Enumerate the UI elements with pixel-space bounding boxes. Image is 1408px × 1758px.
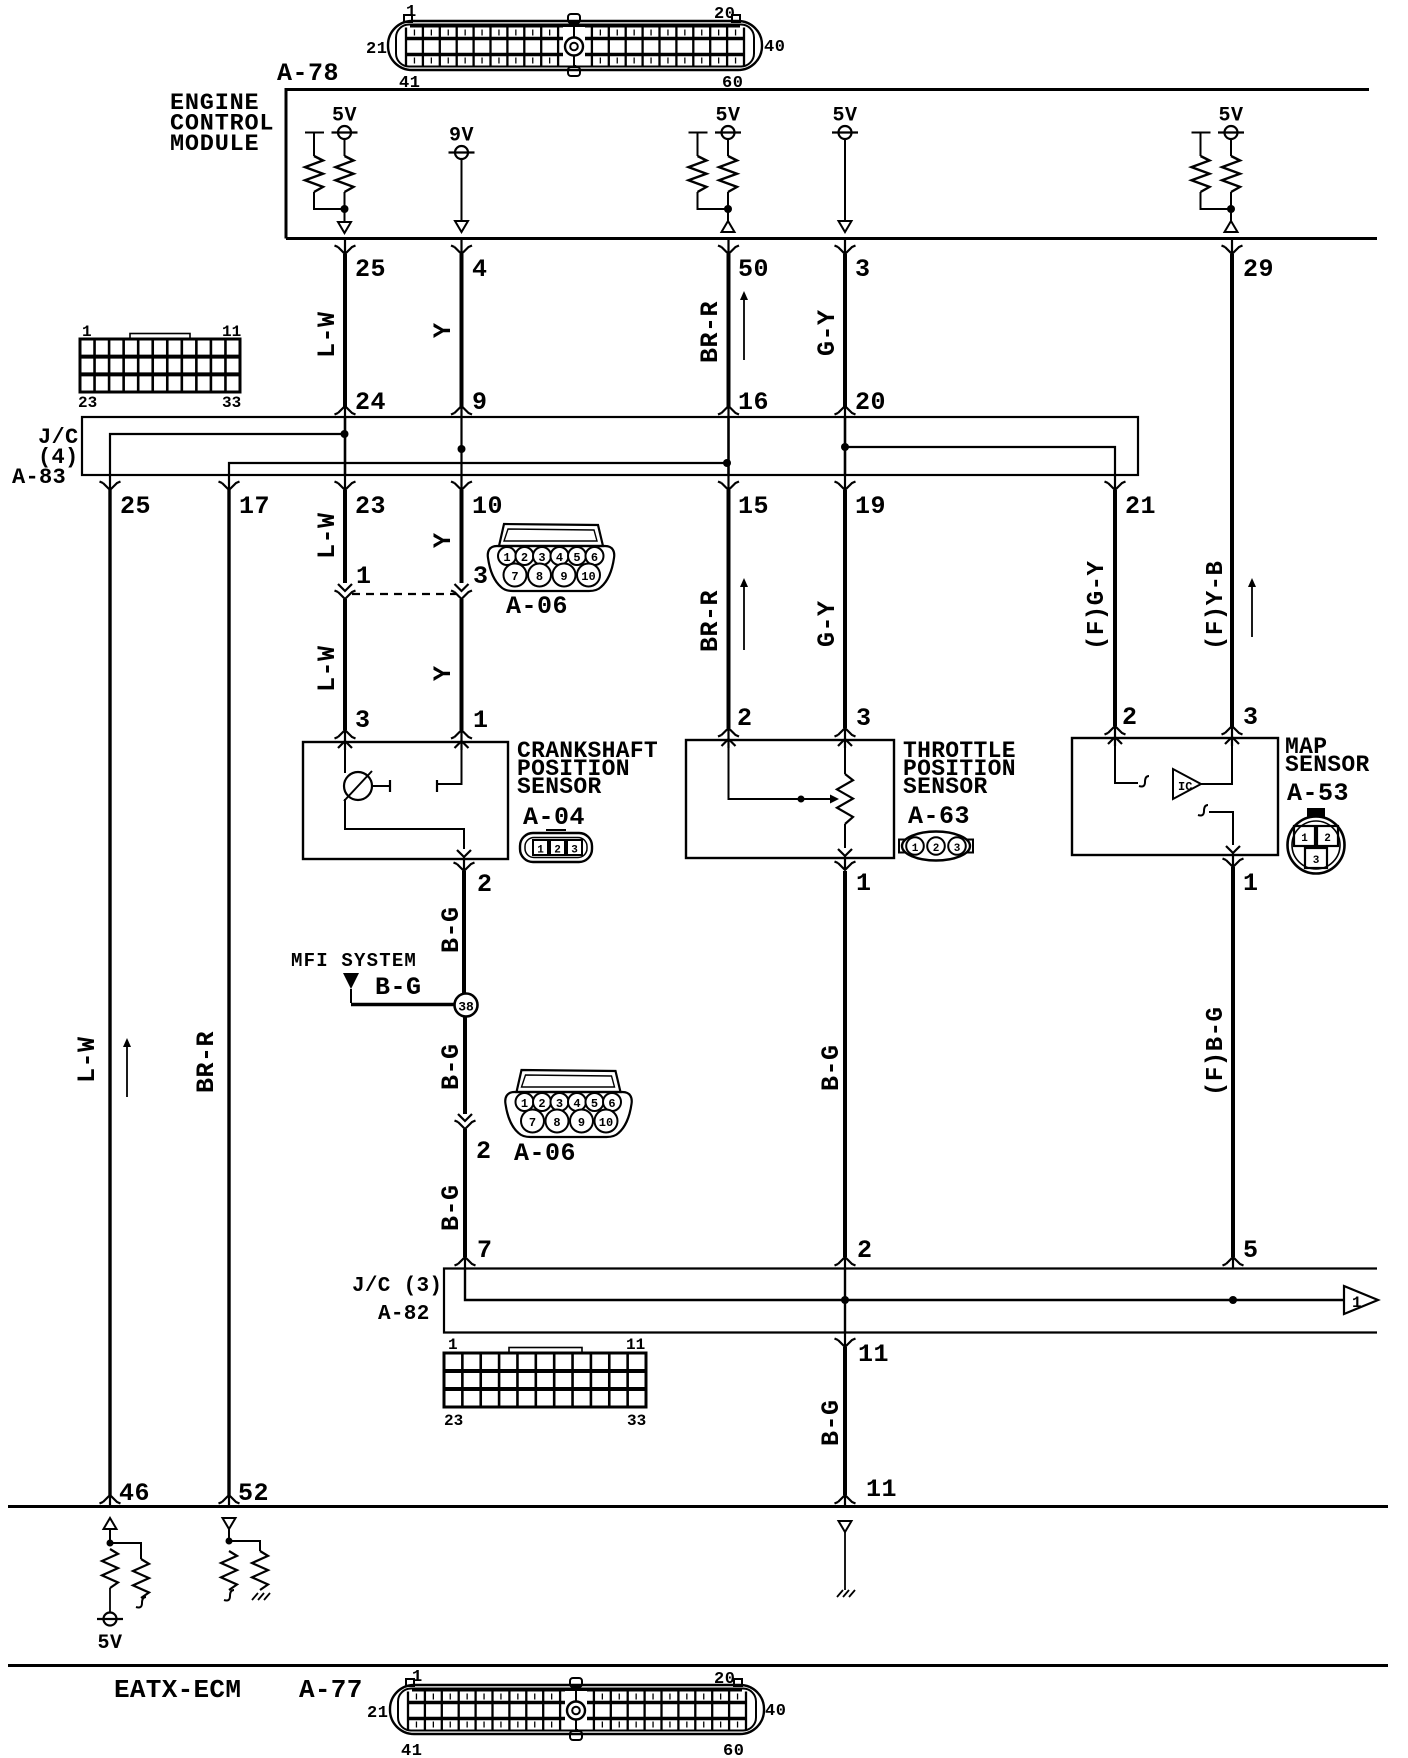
svg-text:A-06: A-06 — [514, 1139, 576, 1168]
svg-text:9: 9 — [472, 388, 488, 417]
svg-text:10: 10 — [599, 1116, 613, 1130]
wire pin2-11 through band — [844, 1268, 846, 1332]
svg-text:1: 1 — [473, 706, 489, 735]
wire L-W pin25 to EATX pin46 — [108, 490, 111, 1495]
svg-text:2: 2 — [1324, 833, 1331, 845]
svg-text:B-G: B-G — [437, 1043, 466, 1090]
svg-text:11: 11 — [866, 1475, 897, 1504]
arrow direction BR-R lower — [743, 582, 745, 650]
arrow in pin50 — [722, 221, 735, 232]
wire pin29 right — [1230, 139, 1232, 156]
svg-text:46: 46 — [119, 1479, 150, 1508]
node pin29 junction — [1227, 205, 1235, 213]
resistor ECM pin50 left — [689, 156, 707, 192]
wire 5V tap left pin50 — [689, 133, 708, 157]
svg-text:8: 8 — [536, 570, 543, 584]
svg-text:2: 2 — [538, 1097, 545, 1111]
connector break A-06 pin1 — [335, 584, 356, 599]
svg-text:40: 40 — [765, 1702, 786, 1721]
connector A-78 60-pin icon — [366, 3, 785, 93]
svg-text:11: 11 — [858, 1340, 889, 1369]
svg-text:B-G: B-G — [375, 973, 422, 1002]
terminal MAP pin3 — [1222, 726, 1243, 746]
svg-text:24: 24 — [355, 388, 386, 417]
pickup coil CKP — [344, 772, 372, 800]
wire TPS pin2 internal — [729, 748, 831, 799]
svg-text:60: 60 — [723, 1742, 744, 1758]
svg-text:1: 1 — [356, 562, 372, 591]
arrow in pin46 — [104, 1518, 117, 1529]
svg-text:5: 5 — [573, 551, 580, 565]
wire pin9-10 through band — [460, 417, 462, 475]
svg-text:MFI SYSTEM: MFI SYSTEM — [291, 950, 417, 972]
terminal CKP pin3 — [335, 730, 356, 750]
wire BR-R pin50 to pin16 — [727, 254, 731, 407]
wire CKP pin3 internal — [344, 750, 346, 773]
hook pin46 right — [136, 1597, 146, 1608]
svg-text:1: 1 — [1243, 869, 1259, 898]
terminal pin5 A-82 — [1223, 1257, 1244, 1268]
5V supply pin25 group — [332, 105, 358, 140]
svg-text:3: 3 — [1313, 855, 1320, 867]
wire pin46 tap right — [110, 1543, 141, 1559]
svg-text:2: 2 — [477, 870, 493, 899]
svg-text:1: 1 — [856, 869, 872, 898]
wire B-G TPS to JC3 pin2 — [843, 871, 847, 1257]
wire pin20-19 through band — [844, 417, 847, 475]
9V supply pin4 — [449, 125, 475, 160]
node pin46 — [107, 1540, 114, 1547]
svg-text:21: 21 — [1125, 492, 1156, 521]
svg-text:33: 33 — [222, 394, 241, 412]
terminal pin10 A-83 out — [451, 476, 472, 490]
label MAP SENSOR — [1285, 734, 1370, 778]
wire 9V to arrow — [461, 160, 463, 222]
sensor box CKP A-04 — [303, 742, 508, 859]
svg-text:L-W: L-W — [313, 311, 342, 358]
junction box J/C(4) A-83 — [82, 417, 1138, 475]
svg-text:3: 3 — [473, 562, 489, 591]
svg-text:1: 1 — [521, 1097, 528, 1111]
svg-text:3: 3 — [1243, 703, 1259, 732]
svg-text:23: 23 — [444, 1412, 463, 1430]
terminal pin50 A-78 — [718, 240, 739, 254]
svg-text:3: 3 — [954, 843, 961, 855]
wire B-G CKP to node38 — [462, 871, 466, 994]
wire 5V tap left pin25 — [305, 133, 324, 157]
wire Y pin10 to A-06 pin3 — [460, 490, 464, 583]
arrow in pin29 — [1225, 221, 1238, 232]
svg-text:2: 2 — [857, 1236, 873, 1265]
svg-text:38: 38 — [458, 1000, 474, 1015]
svg-text:B-G: B-G — [817, 1399, 846, 1446]
resistor ECM pin29 right — [1222, 156, 1240, 192]
gap electrode right CKP — [436, 780, 438, 792]
wire Y A-06 to CKP pin1 — [460, 599, 464, 730]
terminal CKP pin1 — [451, 730, 472, 750]
svg-text:(F)B-G: (F)B-G — [1203, 1007, 1230, 1096]
label CRANKSHAFT POSITION SENSOR — [517, 738, 658, 800]
resistor EATX pin46 left — [102, 1549, 118, 1588]
connector A-83 grid icon — [78, 323, 241, 412]
terminal pin29 A-78 — [1222, 240, 1243, 254]
node pin52 — [226, 1538, 233, 1545]
wire B-G node38 to A-06 pin2 — [463, 1016, 467, 1114]
connector A-82 grid icon — [444, 1336, 646, 1430]
svg-text:11: 11 — [222, 323, 241, 341]
node jc3 pin5 — [1229, 1296, 1237, 1304]
svg-text:25: 25 — [120, 492, 151, 521]
svg-text:7: 7 — [511, 570, 518, 584]
arrow direction L-W — [126, 1042, 128, 1097]
wire TPS pin3 internal — [844, 748, 846, 774]
node jc4 bus2-pin16 — [723, 459, 731, 467]
svg-text:1: 1 — [406, 3, 417, 22]
svg-text:50: 50 — [738, 255, 769, 284]
terminal pin23 A-83 out — [335, 476, 356, 490]
svg-text:29: 29 — [1243, 255, 1274, 284]
wire pin50 left elbow — [698, 192, 725, 209]
dashed link A-06 — [352, 593, 456, 595]
svg-text:IC: IC — [1178, 780, 1192, 794]
arrow direction BR-R upper — [743, 295, 745, 360]
resistor TPS — [837, 774, 853, 824]
svg-text:41: 41 — [401, 1742, 422, 1758]
wire jc3 bus — [465, 1268, 1344, 1300]
terminal CKP pin2 out — [454, 850, 475, 871]
wire pin50 to node — [727, 192, 729, 206]
connector A-77 60-pin icon — [367, 1668, 786, 1758]
svg-text:1: 1 — [503, 551, 510, 565]
node pin25 junction — [341, 205, 349, 213]
wire CKP coil out — [372, 785, 390, 787]
svg-text:52: 52 — [238, 1479, 269, 1508]
svg-text:A-77: A-77 — [299, 1675, 363, 1705]
svg-text:40: 40 — [764, 38, 785, 57]
svg-text:BR-R: BR-R — [696, 590, 725, 652]
svg-text:2: 2 — [476, 1137, 492, 1166]
wiper arrow TPS — [830, 795, 839, 804]
pickup slash CKP — [344, 771, 372, 801]
connector A-04 icon — [520, 830, 592, 862]
terminal pin11 EATX — [835, 1495, 856, 1506]
wire pin52 tap right — [229, 1541, 260, 1551]
svg-text:1: 1 — [912, 843, 919, 855]
svg-text:2: 2 — [521, 551, 528, 565]
node pin50 junction — [724, 205, 732, 213]
svg-text:2: 2 — [933, 843, 940, 855]
wire MAP pin2 internal — [1115, 746, 1138, 783]
svg-text:A-04: A-04 — [523, 803, 585, 832]
svg-text:SENSOR: SENSOR — [1285, 752, 1370, 778]
ground chassis pin52 — [252, 1593, 270, 1600]
wire pin50 right — [727, 139, 729, 156]
svg-text:3: 3 — [355, 706, 371, 735]
wire TPS resistor to pin1 — [844, 824, 846, 848]
svg-text:4: 4 — [472, 255, 488, 284]
terminal pin15 A-83 out — [718, 476, 739, 490]
wire jc4 bus2 — [229, 463, 727, 475]
svg-text:G-Y: G-Y — [813, 600, 842, 647]
svg-text:25: 25 — [355, 255, 386, 284]
terminal TPS pin1 out — [835, 849, 856, 870]
svg-text:Y: Y — [429, 322, 458, 338]
wire L-W A-06 to CKP pin3 — [343, 599, 347, 730]
svg-text:5V: 5V — [1218, 105, 1243, 128]
sensor box TPS A-63 — [686, 740, 894, 858]
hook MAP pin2 — [1139, 776, 1149, 787]
node jc3 pin2 — [841, 1296, 849, 1304]
svg-text:21: 21 — [366, 40, 387, 59]
gap electrode left CKP — [389, 780, 391, 792]
svg-text:1: 1 — [412, 1668, 423, 1687]
terminal pin17 A-83 out — [219, 476, 240, 490]
svg-text:20: 20 — [714, 5, 735, 24]
svg-text:BR-R: BR-R — [696, 301, 725, 363]
wire G-Y pin19 to TPS pin3 — [843, 490, 847, 728]
svg-text:17: 17 — [239, 492, 270, 521]
svg-text:1: 1 — [1301, 833, 1308, 845]
svg-text:11: 11 — [626, 1336, 645, 1354]
svg-text:Y: Y — [429, 665, 458, 681]
wire pin25 node to arrow — [344, 212, 346, 222]
sensor box MAP A-53 — [1072, 738, 1278, 855]
ground chassis pin11 — [837, 1590, 855, 1597]
svg-text:A-83: A-83 — [12, 465, 66, 490]
svg-text:2: 2 — [1122, 703, 1138, 732]
wire pin52 node — [228, 1529, 230, 1544]
svg-text:B-G: B-G — [437, 906, 466, 953]
svg-text:9: 9 — [578, 1116, 585, 1130]
svg-text:SENSOR: SENSOR — [903, 774, 988, 800]
label ENGINE CONTROL MODULE — [170, 90, 274, 158]
wire pin16-15 through band — [727, 417, 730, 475]
svg-text:3: 3 — [856, 704, 872, 733]
svg-text:A-63: A-63 — [908, 802, 970, 831]
EATX-ECM lower boundary — [8, 1664, 1388, 1667]
svg-text:B-G: B-G — [437, 1184, 466, 1231]
svg-text:15: 15 — [738, 492, 769, 521]
svg-text:SENSOR: SENSOR — [517, 774, 602, 800]
svg-text:21: 21 — [367, 1704, 388, 1723]
wire pin29 to node — [1230, 192, 1232, 206]
wire jc4 bus1 — [110, 434, 345, 475]
svg-text:7: 7 — [529, 1116, 536, 1130]
label THROTTLE POSITION SENSOR — [903, 738, 1016, 800]
wire F Y-B pin29 to MAP — [1230, 254, 1234, 727]
ECM box A-78 — [286, 90, 1377, 239]
op-amp IC MAP — [1173, 769, 1201, 799]
terminal MAP pin2 — [1105, 726, 1126, 746]
wire G-Y pin3 to pin20 — [843, 254, 847, 407]
connector A-06 icon lower — [505, 1070, 631, 1137]
svg-text:3: 3 — [571, 845, 578, 857]
node jc4 pin9 — [458, 445, 466, 453]
terminal pin46 EATX — [100, 1495, 121, 1506]
hook pin52 left — [224, 1590, 234, 1601]
arrow continuation 1 — [1344, 1286, 1378, 1314]
EATX-ECM upper boundary — [8, 1505, 1388, 1508]
terminal pin4 A-78 — [451, 240, 472, 254]
svg-text:A-06: A-06 — [506, 592, 568, 621]
svg-text:5: 5 — [1243, 1236, 1259, 1265]
wire CKP pin1 internal — [437, 750, 462, 784]
hook MAP lower — [1198, 805, 1208, 816]
terminal pin3 A-78 — [835, 240, 856, 254]
svg-text:EATX-ECM: EATX-ECM — [114, 1675, 241, 1705]
svg-text:20: 20 — [855, 388, 886, 417]
terminal pin11 A-82 out — [835, 1333, 856, 1347]
wire pin50 node to arrow — [727, 212, 729, 221]
terminal pin19 A-83 out — [835, 476, 856, 490]
svg-text:33: 33 — [627, 1412, 646, 1430]
svg-text:5V: 5V — [97, 1632, 122, 1655]
resistor ECM pin25 right — [336, 156, 354, 192]
connector A-63 icon — [899, 832, 973, 861]
terminal pin16 A-83 — [718, 406, 739, 417]
wire L-W pin23 to A-06 pin1 — [343, 490, 347, 583]
wire L-W pin25 to pin24 — [343, 254, 347, 407]
terminal pin21 A-83 out — [1105, 476, 1126, 490]
connector A-06 icon upper — [488, 524, 614, 591]
arrow out pin4 — [455, 221, 468, 232]
resistor EATX pin52 right — [252, 1551, 268, 1590]
connector A-53 icon — [1288, 808, 1345, 874]
svg-text:5V: 5V — [715, 105, 740, 128]
5V supply pin3 — [832, 105, 858, 140]
svg-text:A-53: A-53 — [1287, 779, 1349, 808]
5V supply pin50 group — [715, 105, 741, 140]
wire pin25 to node — [344, 192, 346, 206]
svg-text:1: 1 — [1352, 1294, 1362, 1312]
svg-text:J/C (3): J/C (3) — [352, 1275, 442, 1298]
terminal pin20 A-83 — [835, 406, 856, 417]
wire pin46 to 5V — [109, 1588, 111, 1612]
wire pin29 node to arrow — [1230, 212, 1232, 221]
resistor EATX pin46 right — [133, 1559, 149, 1598]
svg-text:20: 20 — [714, 1670, 735, 1689]
node TPS wiper — [798, 796, 805, 803]
wire MFI to node38 — [351, 1003, 455, 1007]
resistor ECM pin25 left — [305, 156, 323, 192]
wire BR-R pin15 to TPS pin2 — [727, 490, 731, 728]
arrow direction (F)Y-B — [1251, 582, 1253, 637]
5V supply EATX — [104, 1613, 117, 1626]
terminal pin24 A-83 — [335, 406, 356, 417]
svg-text:5V: 5V — [332, 105, 357, 128]
svg-text:8: 8 — [553, 1116, 560, 1130]
svg-text:7: 7 — [477, 1236, 493, 1265]
junction box J/C(3) A-82 — [444, 1269, 1377, 1333]
arrow out pin25 — [338, 222, 351, 233]
svg-text:A-82: A-82 — [378, 1303, 430, 1326]
svg-text:G-Y: G-Y — [813, 309, 842, 356]
label J/C (3) A-82 — [352, 1275, 442, 1326]
svg-text:2: 2 — [554, 845, 561, 857]
svg-text:5V: 5V — [832, 105, 857, 128]
svg-text:23: 23 — [78, 394, 97, 412]
terminal TPS pin2 — [718, 728, 739, 748]
svg-text:1: 1 — [537, 845, 544, 857]
wire MAP IC out to pin3 — [1201, 746, 1232, 784]
5V supply pin29 group — [1218, 105, 1244, 140]
arrow out pin11 EATX — [839, 1521, 852, 1532]
svg-text:10: 10 — [581, 570, 595, 584]
wire Y pin4 to pin9 — [460, 254, 464, 407]
svg-text:B-G: B-G — [817, 1044, 846, 1091]
terminal MAP pin1 out — [1223, 846, 1244, 867]
svg-text:10: 10 — [472, 492, 503, 521]
wire pin46 node — [109, 1529, 111, 1546]
wire MAP hook to pin1 — [1209, 812, 1233, 845]
terminal pin2 A-82 — [835, 1257, 856, 1268]
svg-text:5: 5 — [591, 1097, 598, 1111]
wire pin25 left elbow — [314, 192, 341, 209]
svg-text:1: 1 — [448, 1336, 458, 1354]
terminal TPS pin3 — [835, 728, 856, 748]
svg-text:1: 1 — [82, 323, 92, 341]
resistor ECM pin29 left — [1192, 156, 1210, 192]
terminal pin9 A-83 — [451, 406, 472, 417]
svg-text:3: 3 — [855, 255, 871, 284]
wire F G-Y pin21 to MAP pin2 — [1113, 490, 1117, 726]
svg-text:(F)G-Y: (F)G-Y — [1084, 560, 1111, 650]
svg-text:9: 9 — [560, 570, 567, 584]
svg-text:MODULE: MODULE — [170, 131, 259, 158]
wire pin29 left elbow — [1201, 192, 1228, 209]
svg-text:(F)Y-B: (F)Y-B — [1203, 561, 1230, 650]
svg-text:L-W: L-W — [73, 1036, 102, 1083]
wire jc4 bus3 — [845, 447, 1115, 475]
arrow out pin52 — [223, 1518, 236, 1529]
terminal pin52 EATX — [219, 1495, 240, 1506]
wire pin25 right — [344, 139, 346, 156]
resistor ECM pin50 right — [719, 156, 737, 192]
svg-text:9V: 9V — [449, 125, 474, 148]
node jc4 bus3-pin20 — [841, 443, 849, 451]
wire pin11 to ground — [844, 1532, 846, 1590]
wire B-G A-06 to JC3 pin7 — [463, 1129, 467, 1257]
svg-text:Y: Y — [429, 532, 458, 548]
node jc4 bus1-pin24 — [341, 430, 349, 438]
wire B-G pin11 to EATX pin11 — [843, 1347, 847, 1495]
svg-text:23: 23 — [355, 492, 386, 521]
svg-text:19: 19 — [855, 492, 886, 521]
svg-text:L-W: L-W — [313, 645, 342, 692]
svg-text:2: 2 — [737, 704, 753, 733]
svg-text:BR-R: BR-R — [192, 1031, 221, 1093]
svg-text:16: 16 — [738, 388, 769, 417]
wire BR-R pin17 to EATX pin52 — [227, 490, 230, 1495]
connector break A-06 pin2 — [455, 1114, 476, 1129]
connector break A-06 pin3 — [451, 584, 472, 599]
label J/C (4) A-83 — [12, 425, 79, 490]
resistor EATX pin52 left — [221, 1551, 237, 1590]
terminal pin7 A-82 — [455, 1257, 476, 1268]
wire F B-G MAP to JC3 pin5 — [1231, 867, 1235, 1257]
wire pin24-23 through band — [344, 417, 347, 475]
svg-text:A-78: A-78 — [277, 59, 339, 88]
svg-text:L-W: L-W — [313, 512, 342, 559]
MFI branch arrow — [343, 973, 359, 989]
svg-text:6: 6 — [608, 1097, 615, 1111]
wire 5V tap left pin29 — [1192, 133, 1211, 157]
arrow out pin3 — [839, 221, 852, 232]
svg-text:6: 6 — [591, 551, 598, 565]
node 38 circled — [455, 994, 478, 1017]
wire 5V pin3 to arrow — [844, 139, 846, 221]
wire CKP coil to pin2 — [345, 799, 464, 849]
